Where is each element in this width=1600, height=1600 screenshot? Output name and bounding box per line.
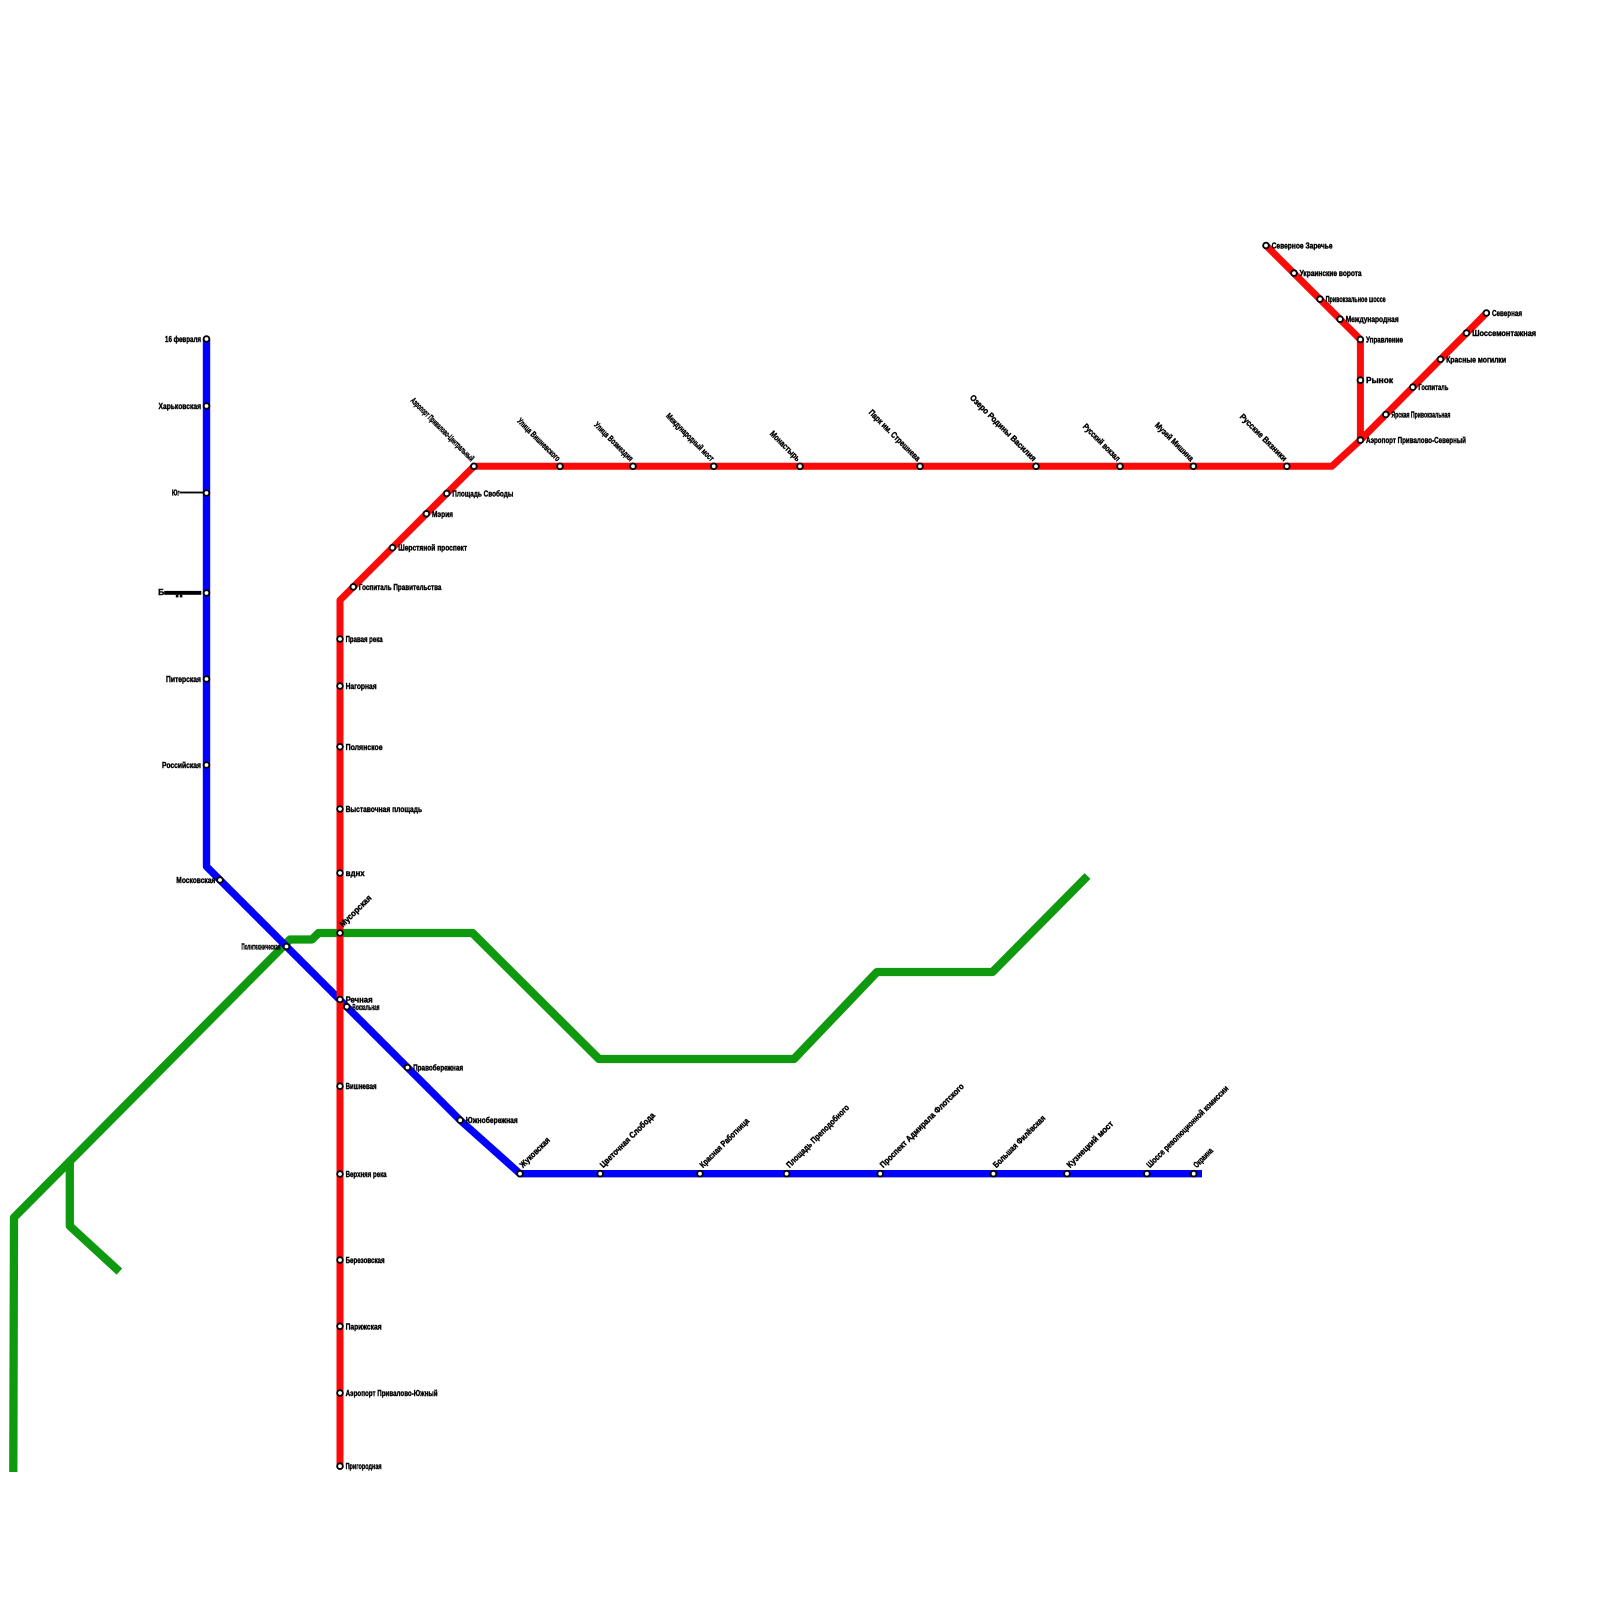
svg-text:Госпиталь: Госпиталь	[1418, 382, 1448, 392]
blue station (206.5,493)	[204, 490, 210, 496]
svg-text:вднх: вднх	[346, 868, 365, 878]
svg-text:Вишневая: Вишневая	[346, 1081, 377, 1091]
red station (920,466.3)	[917, 463, 923, 469]
red station (1320,299.1)	[1317, 296, 1323, 302]
blue station (206.5,679)	[204, 676, 210, 682]
blue station (600.2,1173.7)	[597, 1171, 603, 1177]
blue station (1193.7,1173.7)	[1191, 1171, 1197, 1177]
red station (1340.1,319.2)	[1337, 316, 1343, 322]
red line (main)	[340, 313, 1486, 1466]
red station (1266,245.5)	[1263, 243, 1269, 249]
red station (340,873)	[337, 870, 343, 876]
svg-text:Госпиталь Правительства: Госпиталь Правительства	[359, 582, 442, 592]
svg-text:Харьковская: Харьковская	[159, 401, 202, 411]
svg-text:Северное Заречье: Северное Заречье	[1272, 241, 1333, 251]
red line (north branch)	[1266, 246, 1360, 442]
svg-text:Полянское: Полянское	[346, 742, 383, 752]
blue station (206.5,593)	[204, 590, 210, 596]
svg-text:Шерстяной проспект: Шерстяной проспект	[398, 543, 467, 553]
blue station (786.6,1173.7)	[784, 1171, 790, 1177]
red station (1466.5,333.1)	[1464, 330, 1470, 336]
svg-text:Правобережная: Правобережная	[413, 1063, 463, 1073]
red station (1193.4,466.3)	[1191, 463, 1197, 469]
blue station (880.2,1173.7)	[877, 1171, 883, 1177]
blue line	[207, 339, 1203, 1174]
svg-text:Северная: Северная	[1492, 308, 1522, 318]
red station (426.4,513.8)	[424, 511, 430, 517]
svg-text:Питерская: Питерская	[166, 674, 201, 684]
svg-text:16 февраля: 16 февраля	[165, 334, 201, 344]
blue station (206.5,765)	[204, 762, 210, 768]
red station (713.75,466.3)	[711, 463, 717, 469]
blue station (346.8,1006.8)	[344, 1004, 350, 1010]
blue station (700,1173.7)	[697, 1171, 703, 1177]
red station (800,466.3)	[797, 463, 803, 469]
svg-text:Рынок: Рынок	[1366, 375, 1394, 385]
red station (473.9,466.3)	[471, 463, 477, 469]
red station (1360.4,440.1)	[1358, 437, 1364, 443]
red station (1286.8,466.3)	[1284, 463, 1290, 469]
red station (353.3,586.9)	[350, 584, 356, 590]
blue station (520,1173.7)	[517, 1171, 523, 1177]
red station (340,1174)	[337, 1171, 343, 1177]
red station (1385.8,414.5)	[1383, 412, 1389, 418]
svg-text:Московская: Московская	[176, 875, 215, 885]
blue station (407.5,1067.5)	[405, 1065, 411, 1071]
red station (340,1393)	[337, 1390, 343, 1396]
red station (340,1260)	[337, 1257, 343, 1263]
red station (1440.5,359.3)	[1438, 356, 1444, 362]
blue station (460.2,1120.2)	[457, 1117, 463, 1123]
svg-text:Мэрия: Мэрия	[432, 509, 453, 519]
red station (1294,273.1)	[1291, 270, 1297, 276]
svg-text:Красные могилки: Красные могилки	[1446, 354, 1506, 364]
blue station (206.5,339)	[204, 336, 210, 342]
svg-text:Политехническая: Политехническая	[242, 942, 281, 952]
station Юг leader bar	[180, 492, 207, 494]
blue station (220,880)	[217, 877, 223, 883]
red station (446.7,493.5)	[444, 491, 450, 497]
svg-text:Верхняя река: Верхняя река	[346, 1169, 387, 1179]
red station (340,639)	[337, 636, 343, 642]
svg-text:Юг: Юг	[172, 488, 180, 498]
svg-text:Речная: Речная	[346, 995, 373, 1005]
green line (main)	[13, 876, 1087, 1472]
red station (633,466.3)	[630, 463, 636, 469]
green line (branch)	[70, 1161, 120, 1272]
svg-text:Ярская Привокзальная: Ярская Привокзальная	[1391, 410, 1450, 420]
red station (1360.4,339.5)	[1358, 337, 1364, 343]
svg-text:Украинские ворота: Украинские ворота	[1300, 268, 1362, 278]
svg-text:Нагорная: Нагорная	[346, 681, 377, 691]
red station (340,809)	[337, 806, 343, 812]
svg-text:Шоссемонтажная: Шоссемонтажная	[1472, 328, 1536, 338]
stations: circles	[204, 243, 1490, 1469]
blue station (206.5,406)	[204, 403, 210, 409]
red station (560,466.3)	[557, 463, 563, 469]
svg-text:Б: Б	[158, 587, 164, 597]
svg-text:Международная: Международная	[1346, 314, 1399, 324]
red station (340,1086.2)	[337, 1083, 343, 1089]
blue station (1067,1173.7)	[1064, 1171, 1070, 1177]
red station (1360.4,380.2)	[1358, 377, 1364, 383]
red station (340,686)	[337, 683, 343, 689]
red station (392.5,547.7)	[390, 545, 396, 551]
blue station (1146.9,1173.7)	[1144, 1171, 1150, 1177]
svg-text:Березовская: Березовская	[346, 1255, 385, 1265]
red station (1036,466.3)	[1033, 463, 1039, 469]
svg-text:Российская: Российская	[162, 760, 201, 770]
svg-text:Выставочная площадь: Выставочная площадь	[346, 804, 423, 814]
svg-text:Аэропорт Привалово-Северный: Аэропорт Привалово-Северный	[1366, 435, 1466, 445]
svg-text:Южнобережная: Южнобережная	[466, 1115, 518, 1125]
red station (340,746.8)	[337, 744, 343, 750]
red station (340,1466.2)	[337, 1463, 343, 1469]
red station (340,933)	[337, 930, 343, 936]
svg-text:Площадь Свободы: Площадь Свободы	[452, 489, 513, 499]
svg-text:Правая река: Правая река	[346, 634, 383, 644]
svg-text:Привокзальное шоссе: Привокзальное шоссе	[1326, 294, 1386, 304]
red station (1120,466.3)	[1117, 463, 1123, 469]
svg-text:Пригородная: Пригородная	[346, 1461, 382, 1471]
red station (1486.4,313)	[1484, 310, 1490, 316]
red station (340,999.5)	[337, 997, 343, 1003]
svg-text:Парижская: Парижская	[346, 1321, 382, 1331]
svg-text:Управление: Управление	[1366, 335, 1403, 345]
red station (340,1326.3)	[337, 1323, 343, 1329]
blue station (286.5,946.5)	[284, 944, 290, 950]
blue station (993.4,1173.7)	[991, 1171, 997, 1177]
red station (1412.8,387.2)	[1410, 384, 1416, 390]
svg-text:Аэропорт Привалово-Южный: Аэропорт Привалово-Южный	[346, 1388, 438, 1398]
